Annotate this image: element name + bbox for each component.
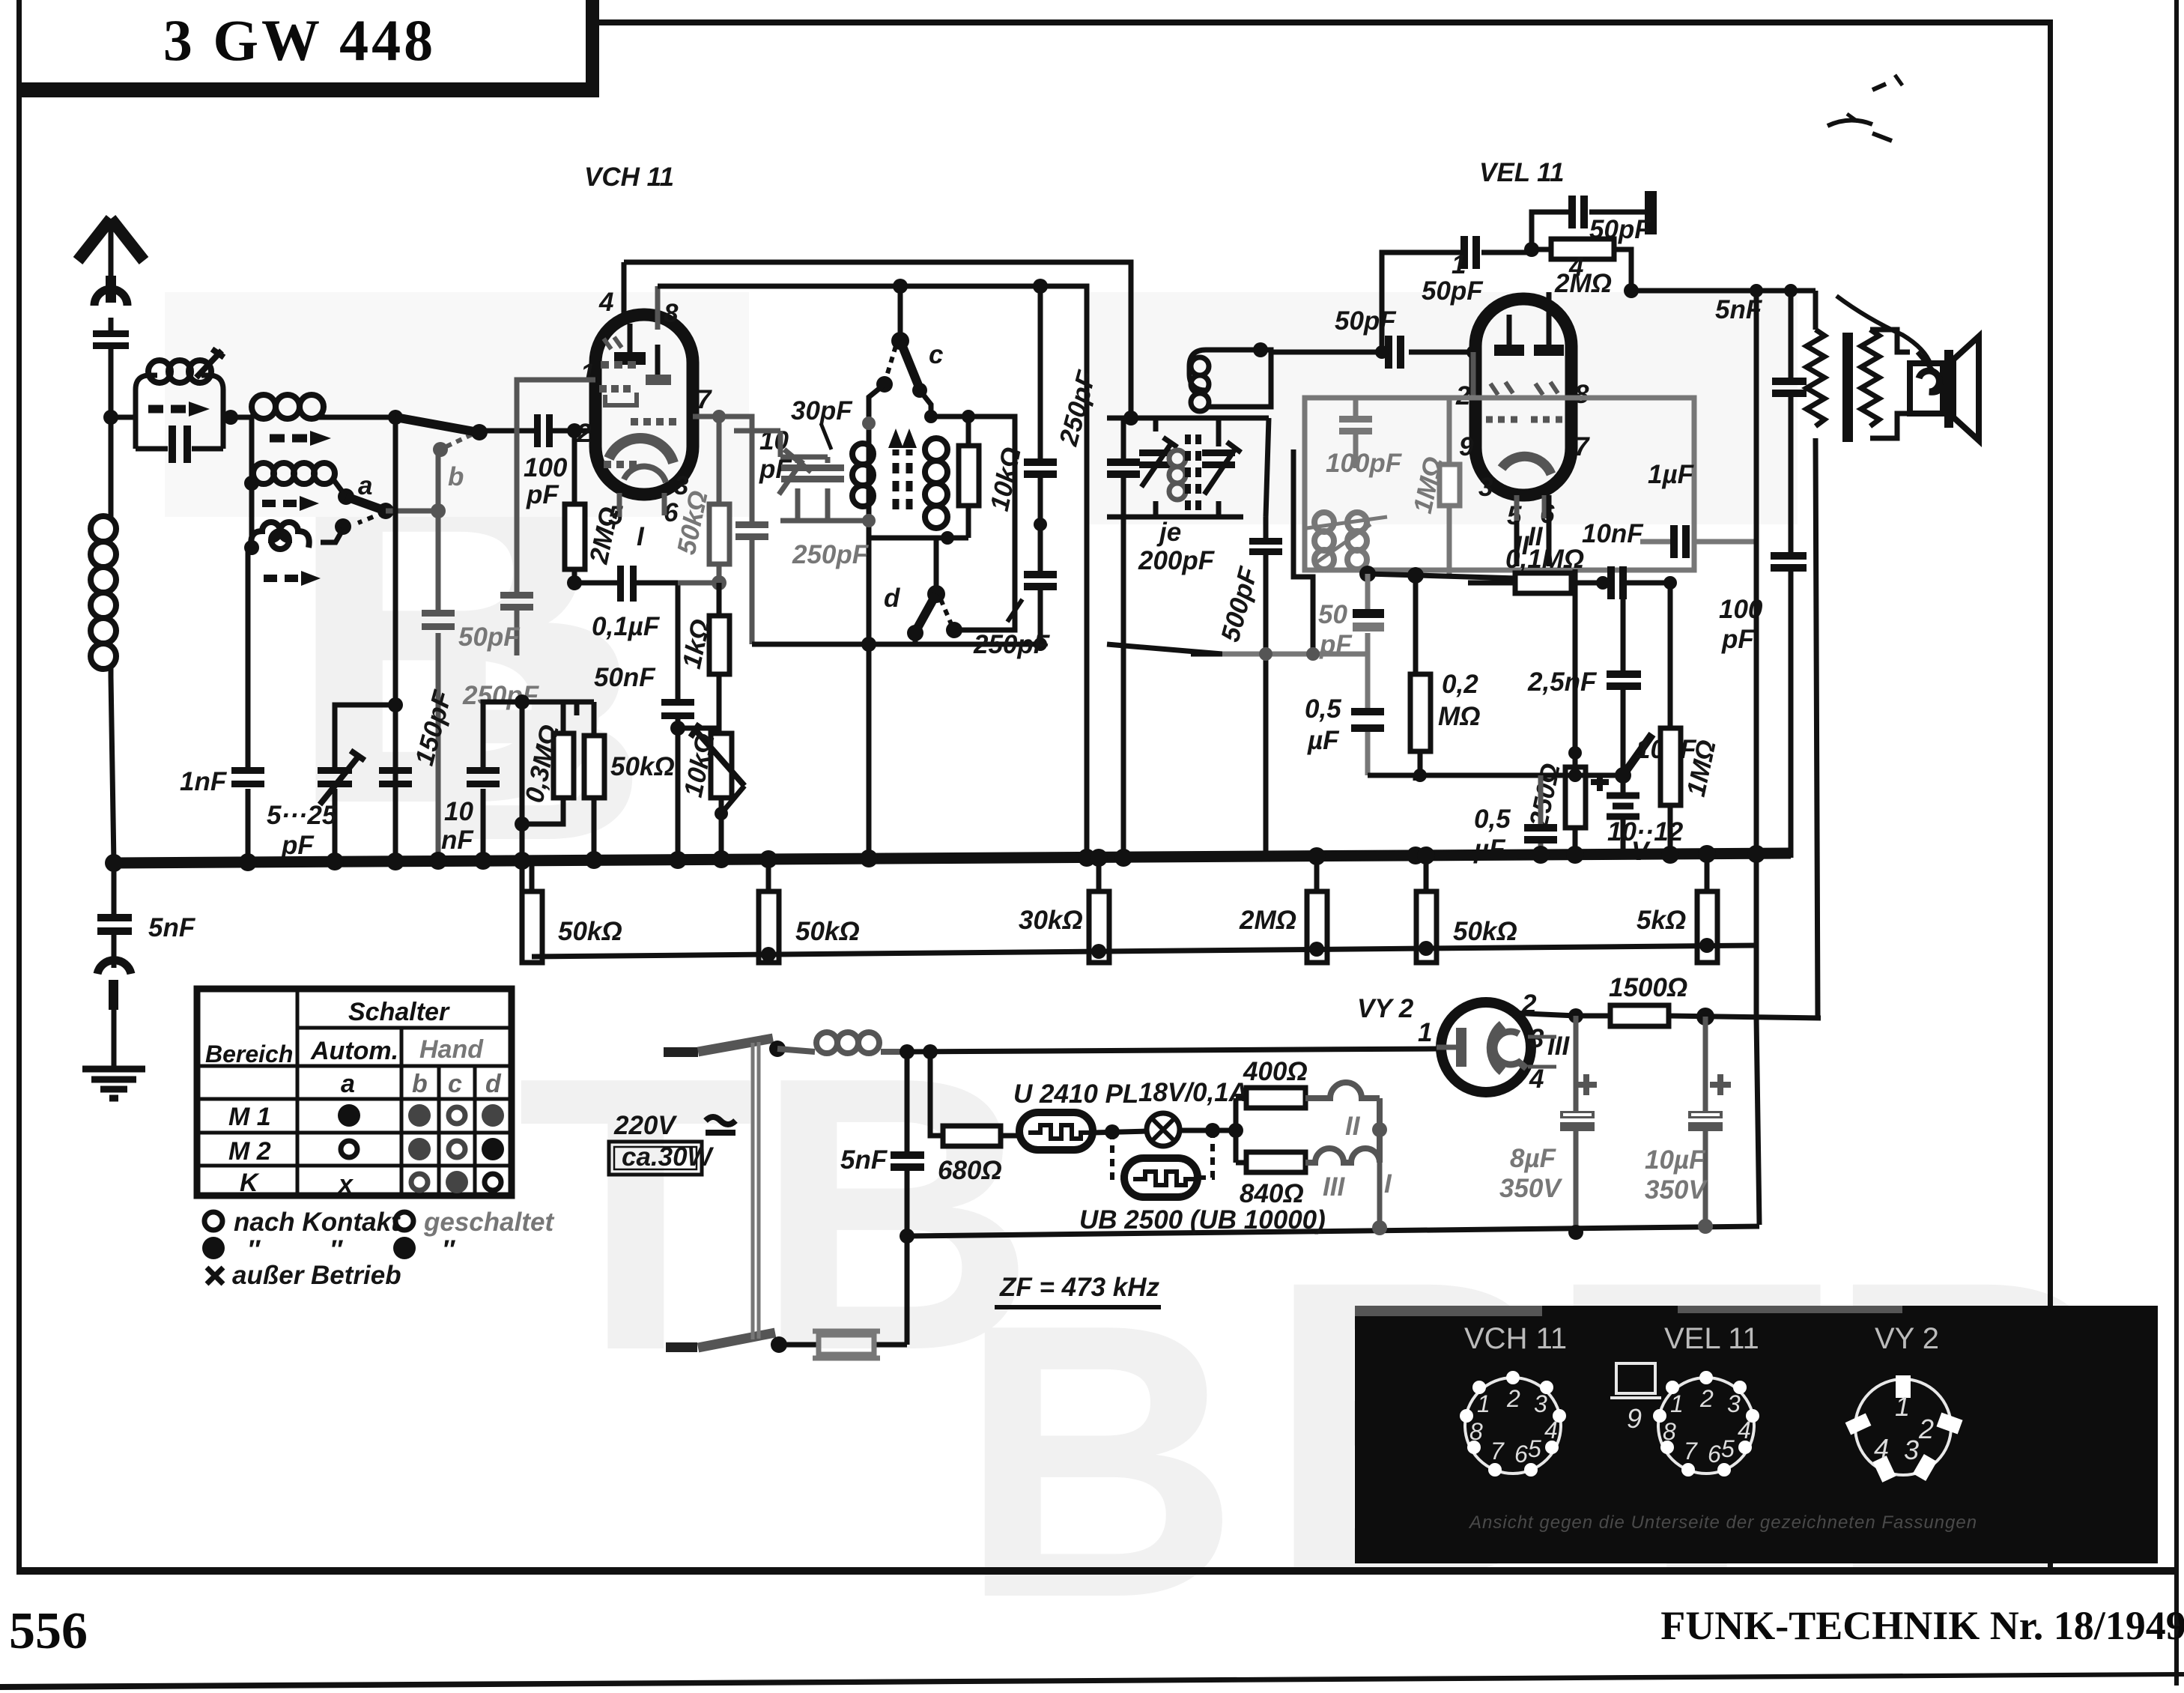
svg-text:1: 1 — [1670, 1390, 1684, 1417]
svg-text:1nF: 1nF — [180, 767, 228, 796]
svg-text:10: 10 — [444, 797, 473, 826]
svg-text:3: 3 — [1478, 473, 1493, 502]
svg-text:Hand: Hand — [419, 1035, 484, 1064]
table dots M1 — [338, 1104, 360, 1127]
svg-text:9: 9 — [1627, 1403, 1642, 1434]
svg-text:FUNK-TECHNIK Nr. 18/1949: FUNK-TECHNIK Nr. 18/1949 — [1660, 1603, 2184, 1648]
hanging resistor 5k — [1705, 854, 1710, 963]
main bus line — [114, 853, 1791, 863]
svg-text:b: b — [448, 462, 464, 491]
page bottom edge line — [0, 1672, 2184, 1690]
resistor 1MOhm gray — [1447, 398, 1452, 575]
wire left rail to bus — [111, 677, 114, 863]
svg-text:1: 1 — [580, 359, 595, 388]
svg-text:50kΩ: 50kΩ — [795, 917, 860, 946]
svg-text:6: 6 — [1708, 1441, 1721, 1468]
table dots K — [411, 1174, 428, 1190]
svg-text:III: III — [1323, 1172, 1345, 1202]
node — [223, 410, 238, 425]
tube VCH11 top cap electrode — [614, 352, 646, 365]
svg-text:5nF: 5nF — [148, 913, 196, 942]
svg-text:2: 2 — [1699, 1385, 1714, 1412]
watermark BTB — [165, 292, 2128, 1679]
svg-text:2,5nF: 2,5nF — [1527, 667, 1598, 697]
output transformer secondary — [1861, 330, 1879, 426]
switch d — [934, 538, 939, 590]
IF1 dashed arrows — [896, 449, 909, 509]
resistor 840 Ohm — [1246, 1152, 1305, 1172]
table Schalter frame — [197, 989, 512, 1196]
resistor 400 Ohm — [1246, 1088, 1305, 1108]
wire to 0,2M — [1413, 575, 1419, 674]
node AVC left — [515, 694, 530, 709]
svg-text:µF: µF — [1307, 726, 1340, 755]
svg-text:MΩ: MΩ — [1438, 702, 1480, 731]
wire pin1 grid left — [517, 380, 595, 655]
mechanical link — [753, 1042, 759, 1339]
socket VCH11 pins — [1460, 1371, 1566, 1477]
IF1 transformer frame — [869, 384, 931, 857]
switch c — [898, 286, 903, 337]
capacitor 150pF — [379, 767, 412, 774]
svg-text:10µF: 10µF — [1645, 1145, 1706, 1175]
capacitor 50pF AF plates — [1353, 609, 1384, 618]
pin 4 lead — [622, 262, 627, 315]
svg-text:Autom.: Autom. — [310, 1037, 398, 1065]
vertical to lower coils — [249, 417, 255, 548]
svg-text:je: je — [1156, 518, 1181, 547]
svg-text:VY 2: VY 2 — [1357, 994, 1414, 1023]
VEL11 grid cap symbol — [1616, 1363, 1655, 1393]
page frame right line — [2048, 19, 2053, 1572]
svg-text:U 2410 PL: U 2410 PL — [1013, 1079, 1138, 1109]
capacitor 50pF top + grid cap bar — [1532, 212, 1645, 252]
svg-text:VY 2: VY 2 — [1875, 1322, 1939, 1355]
IF2 coils (gray) — [1169, 450, 1186, 500]
resistor 1500 — [1610, 1005, 1669, 1026]
svg-text:50nF: 50nF — [594, 663, 656, 692]
svg-text:außer Betrieb: außer Betrieb — [232, 1261, 401, 1290]
svg-text:nF: nF — [441, 826, 474, 855]
svg-text:100pF: 100pF — [1326, 449, 1403, 478]
paper tear marks — [1827, 84, 1934, 372]
capacitor 500pF — [1107, 418, 1269, 654]
ground symbol — [82, 1069, 145, 1098]
svg-text:M 2: M 2 — [228, 1137, 271, 1166]
IF2 primary cap — [1121, 418, 1126, 857]
resistor 50kOhm — [592, 702, 597, 863]
switch a — [338, 488, 354, 505]
svg-text:30pF: 30pF — [791, 396, 853, 425]
wire switch a output — [386, 509, 438, 514]
svg-text:I: I — [1384, 1169, 1392, 1199]
svg-text:5: 5 — [1528, 1435, 1541, 1462]
resistor 0,3MOhm — [553, 733, 574, 798]
capacitor 250pF lower — [1024, 571, 1057, 578]
gray rail b — [436, 449, 441, 858]
tube VY2 — [1441, 1002, 1531, 1092]
tube VEL11 envelope — [1475, 299, 1571, 495]
svg-text:pF: pF — [1721, 625, 1755, 654]
wire diode load — [1368, 574, 1517, 578]
socket VCH11 — [1465, 1378, 1561, 1474]
bus right corner up — [1789, 839, 1794, 853]
svg-text:220V: 220V — [613, 1111, 677, 1140]
black panel — [1355, 1306, 2158, 1563]
capacitor 0,5uF second — [1413, 775, 1419, 781]
wire top A plate — [624, 262, 1131, 418]
wire 0,3M leads — [522, 702, 577, 824]
svg-text:5: 5 — [1721, 1435, 1735, 1462]
svg-text:556: 556 — [9, 1602, 88, 1660]
svg-text:9: 9 — [1459, 432, 1474, 461]
legend — [204, 1212, 222, 1230]
svg-text:200pF: 200pF — [1138, 546, 1216, 575]
capacitor 50pF pin1 — [500, 592, 533, 599]
svg-text:50: 50 — [1318, 600, 1347, 629]
svg-text:Ansicht gegen die Unterseite d: Ansicht gegen die Unterseite der gezeich… — [1468, 1512, 1977, 1533]
capacitor 0,1uF — [574, 583, 678, 702]
svg-text:3: 3 — [1534, 1390, 1547, 1417]
svg-text:″: ″ — [442, 1235, 456, 1265]
wire AVC left rail — [520, 702, 525, 957]
wire to 100pF — [478, 428, 536, 434]
resistor 680 — [930, 1052, 1019, 1136]
lamp 18V — [1147, 1113, 1180, 1146]
svg-text:250pF: 250pF — [973, 630, 1051, 659]
resistor 1MOhm right — [1668, 583, 1673, 863]
svg-text:4: 4 — [1529, 1064, 1544, 1094]
capacitor 500pF plates — [1249, 538, 1282, 545]
svg-text:d: d — [884, 584, 900, 613]
coil mains choke gray — [777, 1049, 907, 1052]
wire 50pF/0,5uF column — [1365, 574, 1371, 775]
svg-text:K: K — [240, 1169, 260, 1197]
tube VCH11 envelope — [595, 315, 693, 494]
svg-text:VEL 11: VEL 11 — [1479, 158, 1565, 187]
bottom rail PSU — [907, 1226, 1759, 1236]
svg-text:VEL 11: VEL 11 — [1664, 1322, 1759, 1355]
switch b — [388, 410, 403, 425]
plate rail y388 — [1631, 288, 1816, 294]
tube VCH11 grids — [599, 337, 676, 464]
page frame bottom line — [16, 1567, 2179, 1575]
IF1 coil secondary — [925, 438, 947, 528]
bus junction dots — [105, 845, 1765, 872]
svg-text:250pF: 250pF — [792, 540, 870, 569]
speaker magnet bar — [1944, 350, 1953, 428]
resistor 0,1MOhm — [1468, 581, 1603, 586]
svg-text:50kΩ: 50kΩ — [558, 917, 622, 946]
svg-text:VCH 11: VCH 11 — [1464, 1322, 1567, 1355]
svg-text:II: II — [1528, 522, 1544, 551]
svg-text:1µF: 1µF — [1648, 460, 1695, 489]
svg-text:5nF: 5nF — [840, 1145, 888, 1175]
resistor 0,2MOhm — [1418, 751, 1423, 775]
wire 500pF column — [1264, 517, 1269, 855]
svg-text:500pF: 500pF — [1216, 563, 1264, 645]
node — [567, 575, 582, 590]
wire antenna rail — [109, 349, 114, 515]
svg-text:0,1µF: 0,1µF — [592, 612, 661, 641]
hanging resistor 50k (c) — [1424, 855, 1429, 963]
svg-text:50pF: 50pF — [1422, 276, 1484, 306]
page frame left border — [16, 0, 22, 1573]
trimmer je200pF right — [1216, 418, 1222, 517]
svg-text:840Ω: 840Ω — [1240, 1179, 1304, 1208]
svg-text:7: 7 — [697, 385, 712, 414]
AF transformer gray — [1307, 512, 1387, 569]
tube UB2500 — [1124, 1158, 1198, 1197]
potentiometer 10kOhm — [719, 728, 721, 863]
table dots M2 — [341, 1141, 357, 1157]
svg-text:pF: pF — [281, 831, 315, 860]
tube U2410PL — [1019, 1112, 1093, 1150]
coil L3 — [253, 463, 335, 484]
svg-text:4: 4 — [1568, 252, 1583, 282]
wire jog to AVC rail — [1293, 449, 1313, 654]
svg-text:680Ω: 680Ω — [938, 1156, 1002, 1185]
svg-text:400Ω: 400Ω — [1243, 1057, 1308, 1086]
svg-text:1: 1 — [1895, 1391, 1910, 1422]
capacitor 250pF plate column — [1038, 286, 1043, 644]
svg-text:18V/0,1A: 18V/0,1A — [1138, 1078, 1248, 1107]
svg-text:7: 7 — [1684, 1438, 1698, 1465]
node diode load — [1359, 566, 1376, 582]
capacitor 8uF — [1574, 1016, 1579, 1234]
capacitor 10uF electrolytic — [1573, 753, 1578, 863]
antenna — [78, 219, 144, 261]
capacitor 1uF — [1640, 539, 1756, 545]
resistor 1kOhm — [678, 583, 719, 728]
svg-text:8: 8 — [1663, 1418, 1676, 1445]
svg-text:2MΩ: 2MΩ — [1239, 906, 1296, 935]
svg-text:0,5: 0,5 — [1474, 805, 1511, 834]
svg-text:geschaltet: geschaltet — [423, 1208, 554, 1237]
svg-text:30kΩ: 30kΩ — [1019, 906, 1083, 935]
capacitor 1nF — [246, 548, 251, 858]
svg-text:350V: 350V — [1499, 1174, 1562, 1203]
speaker cone — [1953, 336, 1979, 440]
core dashed — [1188, 434, 1198, 517]
label ZF = 473 kHz — [995, 1273, 1161, 1309]
socket VEL11 — [1658, 1378, 1754, 1474]
svg-text:4: 4 — [1544, 1417, 1558, 1444]
capacitor 2,5nF — [1621, 599, 1626, 775]
coil L4 — [251, 522, 309, 549]
capacitor 100pF output — [1789, 291, 1794, 858]
capacitor 50nF — [661, 699, 694, 706]
svg-text:Bereich: Bereich — [205, 1041, 293, 1067]
hanging resistor 50k (a) — [530, 863, 535, 963]
top rail PSU — [907, 1049, 1437, 1052]
wire y470 with 50pF grid cap — [1271, 350, 1473, 355]
speaker voice coil box — [1910, 363, 1943, 414]
AVC gray box — [1305, 398, 1694, 570]
svg-text:VCH 11: VCH 11 — [584, 163, 674, 192]
capacitor 5nF ground — [97, 914, 132, 921]
svg-text:II: II — [1345, 1112, 1361, 1141]
wire secondary to speaker — [1870, 330, 1910, 438]
node junction — [103, 410, 118, 425]
capacitor 0,5uF first plates — [1351, 708, 1384, 715]
hanging resistor 2M — [1314, 856, 1320, 963]
svg-text:3: 3 — [1727, 1390, 1741, 1417]
svg-text:a: a — [358, 471, 372, 500]
svg-text:100: 100 — [524, 453, 568, 482]
socket VEL11 pins — [1653, 1371, 1759, 1477]
svg-text:4: 4 — [1874, 1433, 1889, 1464]
fuse — [779, 1342, 907, 1348]
svg-text:pF: pF — [526, 480, 559, 509]
plug hook — [97, 960, 131, 974]
svg-text:4: 4 — [598, 288, 613, 317]
svg-text:2: 2 — [1506, 1385, 1520, 1412]
svg-text:50pF: 50pF — [458, 623, 521, 652]
svg-text:8: 8 — [1574, 380, 1589, 409]
30pF gray trimmers — [734, 417, 876, 527]
coil L2 — [252, 395, 324, 419]
socket VY2 — [1855, 1379, 1951, 1475]
svg-text:3 GW 448: 3 GW 448 — [163, 7, 436, 73]
resistor 10kOhm damping — [966, 417, 971, 538]
svg-text:a: a — [341, 1070, 355, 1098]
wire top B screen — [658, 286, 1087, 863]
svg-text:x: x — [337, 1170, 354, 1199]
wire pin7 to 250pF — [693, 417, 752, 644]
resistor 2MOhm feedback — [1532, 249, 1631, 291]
svg-text:M 1: M 1 — [228, 1103, 271, 1131]
svg-text:b: b — [412, 1070, 428, 1098]
svg-text:0,2: 0,2 — [1442, 670, 1478, 699]
switch arms gray — [698, 1038, 773, 1052]
core — [1842, 333, 1853, 442]
svg-text:50kΩ: 50kΩ — [1453, 917, 1517, 946]
IF2 transformer top node — [1107, 416, 1269, 421]
node on AVC rail — [1259, 647, 1273, 661]
svg-text:ca.30W: ca.30W — [622, 1142, 715, 1172]
wire to LC1 — [111, 415, 136, 420]
wire bus down left — [112, 863, 117, 914]
svg-text:3: 3 — [1904, 1435, 1919, 1465]
svg-text:350V: 350V — [1645, 1175, 1708, 1205]
coil LC1 box with trimmer — [136, 375, 223, 449]
return line AVC — [532, 945, 1756, 957]
capacitor 5nF speaker — [1772, 378, 1807, 385]
capacitor 10nF — [1607, 566, 1615, 599]
svg-text:2: 2 — [576, 419, 592, 448]
capacitor 100pF AVC — [1353, 398, 1359, 468]
coil antenna choke — [91, 516, 116, 669]
cathode node wiring — [1517, 495, 1575, 753]
capacitor 5nF PSU — [905, 1052, 910, 1345]
mains plug prongs — [664, 1047, 698, 1057]
svg-text:1500Ω: 1500Ω — [1609, 973, 1687, 1002]
svg-text:2: 2 — [1918, 1414, 1934, 1444]
svg-text:10kΩ: 10kΩ — [985, 445, 1027, 514]
pin 8 lead — [655, 286, 661, 330]
svg-text:6: 6 — [1514, 1441, 1528, 1468]
page frame top line — [596, 19, 2052, 25]
box ca.30W — [609, 1142, 702, 1175]
svg-text:50pF: 50pF — [1335, 306, 1397, 336]
svg-text:8µF: 8µF — [1510, 1144, 1557, 1173]
output transformer primary — [1807, 291, 1824, 1018]
svg-text:ZF = 473 kHz: ZF = 473 kHz — [999, 1273, 1160, 1302]
svg-text:c: c — [929, 340, 943, 369]
svg-text:10nF: 10nF — [1582, 519, 1644, 548]
rail up right — [1818, 438, 1821, 1018]
lamp bumps — [1305, 1082, 1380, 1163]
svg-text:8: 8 — [664, 299, 679, 328]
svg-text:d: d — [485, 1070, 502, 1098]
IF1 bottom rail — [752, 642, 1046, 647]
svg-text:7: 7 — [1490, 1438, 1505, 1465]
resistor 250Ohm — [1573, 764, 1578, 767]
switch 10uF — [1615, 767, 1631, 784]
wire filament bracket — [1236, 1098, 1246, 1163]
svg-text:I: I — [637, 522, 645, 551]
hanging resistor 30k — [1096, 858, 1102, 963]
hanging resistor 50k (b) — [766, 859, 771, 963]
B+ rail right — [1756, 291, 1759, 1225]
svg-text:5···25: 5···25 — [267, 801, 337, 830]
svg-text:UB 2500 (UB 10000): UB 2500 (UB 10000) — [1079, 1205, 1326, 1235]
svg-text:5kΩ: 5kΩ — [1637, 906, 1686, 935]
capacitor 5nF antenna — [93, 330, 129, 337]
capacitor 250pF gray — [422, 610, 455, 617]
title box 3 GW 448 — [22, 82, 599, 97]
VEL11 electrodes — [1494, 345, 1524, 356]
page outer right edge — [2174, 0, 2179, 1686]
resistor 50kOhm screen (gray) — [717, 417, 722, 583]
pin2 to 1500 — [1510, 1013, 1821, 1018]
capacitor 10uF — [1703, 1017, 1708, 1227]
capacitor 50pF feedback2 — [1382, 252, 1532, 352]
svg-text:Schalter: Schalter — [348, 998, 450, 1026]
svg-text:c: c — [448, 1070, 462, 1098]
resistor 2MOhm grid leak — [572, 431, 577, 583]
svg-text:250Ω: 250Ω — [1524, 761, 1566, 831]
rail 150pF — [393, 417, 398, 858]
socket VY2 pins — [1845, 1375, 1963, 1482]
svg-text:nach Kontakt: nach Kontakt — [234, 1208, 401, 1237]
svg-text:1: 1 — [1477, 1390, 1490, 1417]
tube VCH11 cathode arc — [609, 438, 673, 463]
gray bottom rail of AVC — [1222, 652, 1368, 657]
grid coil box — [1189, 350, 1271, 407]
IF1 coil primary — [852, 443, 873, 506]
capacitor 10nF — [483, 702, 522, 858]
trimmer je200pF left — [1153, 418, 1159, 517]
svg-text:7: 7 — [1574, 432, 1590, 461]
svg-text:50kΩ: 50kΩ — [610, 752, 675, 781]
trimmer 5..25pF — [335, 705, 395, 858]
capacitor 100pF — [534, 414, 541, 447]
capacitor 250pF pin7 — [735, 521, 768, 528]
svg-text:0,5: 0,5 — [1305, 694, 1341, 724]
svg-text:4: 4 — [1738, 1417, 1751, 1444]
svg-text:1: 1 — [1452, 250, 1466, 279]
svg-text:1: 1 — [1418, 1018, 1432, 1047]
svg-text:8: 8 — [1469, 1418, 1483, 1445]
